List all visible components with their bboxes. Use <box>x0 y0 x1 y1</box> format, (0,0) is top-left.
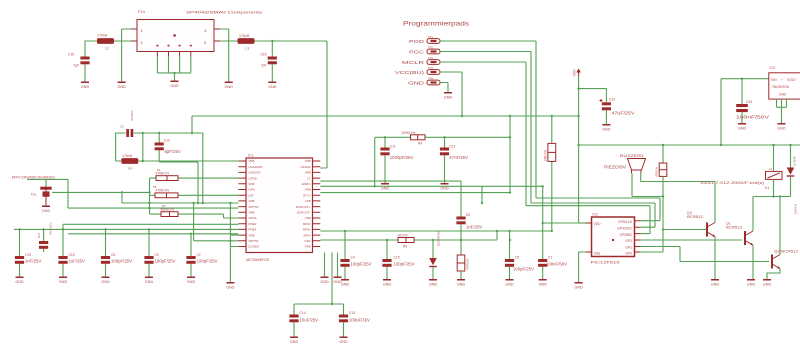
wire R8 to gnd <box>460 271 462 279</box>
svg-text:C5: C5 <box>515 256 519 260</box>
svg-text:GP4/OSC: GP4/OSC <box>617 227 632 231</box>
svg-text:+: + <box>781 78 783 82</box>
svg-text:LL4148: LL4148 <box>793 156 797 166</box>
svg-text:100pF/25V: 100pF/25V <box>197 259 218 264</box>
wire C11 tap <box>384 137 386 147</box>
svg-text:C14: C14 <box>300 311 306 315</box>
wire Q1 collector <box>752 197 754 231</box>
wire MCLR to GP3 <box>526 206 650 234</box>
capacitor C4 <box>344 231 346 259</box>
svg-text:DCROUT+: DCROUT+ <box>296 205 311 209</box>
ground (C5) <box>505 279 514 287</box>
svg-text:LIP-: LIP- <box>249 193 255 197</box>
svg-text:PGD: PGD <box>409 39 425 45</box>
capacitor C34 <box>736 104 748 107</box>
svg-text:560R/1%: 560R/1% <box>161 208 175 212</box>
svg-text:C16: C16 <box>260 53 266 57</box>
svg-text:LNAANDK: LNAANDK <box>249 165 263 169</box>
svg-text:BCR513: BCR513 <box>726 226 742 230</box>
wire antenna top <box>27 179 68 208</box>
wire C22 to gnd <box>605 110 607 124</box>
wire D5 to gnd <box>432 267 434 279</box>
svg-text:C10: C10 <box>164 139 170 143</box>
wire Q2 emitter to gnd <box>767 269 780 279</box>
wire left bus y233.8 <box>68 233 238 235</box>
svg-text:C18: C18 <box>69 253 75 257</box>
ground (C2) <box>187 277 196 285</box>
svg-text:2IP3A: 2IP3A <box>249 216 257 220</box>
wire D5 tap <box>432 240 434 258</box>
wire VSS to gnd <box>579 252 586 282</box>
wire branch x542.7 down to C1 and VDD line <box>543 186 579 259</box>
wire C22 branch <box>579 89 607 102</box>
svg-text:R9: R9 <box>403 245 407 249</box>
svg-text:C8: C8 <box>111 253 115 257</box>
capacitor C17 <box>43 229 45 241</box>
svg-text:LR8: LR8 <box>305 199 311 203</box>
capacitor C14 <box>289 315 298 323</box>
svg-text:VDD: VDD <box>594 222 602 226</box>
wire vertical x122 <box>121 192 123 203</box>
ground (pads) <box>444 92 453 100</box>
ground (R8) <box>457 279 466 287</box>
ground (connector) <box>42 206 51 214</box>
resistor R12 10K vertical <box>548 143 556 161</box>
resistor R11 47R vertical <box>659 163 667 176</box>
wire relay coil bottom <box>773 179 775 196</box>
svg-text:L4: L4 <box>128 167 132 171</box>
inductor L3 <box>238 38 255 44</box>
ground (IC2) <box>574 282 583 290</box>
wire RF drop x193.6 <box>194 203 239 241</box>
ground (C8) <box>101 277 110 285</box>
svg-text:100uF/16V: 100uF/16V <box>349 318 370 323</box>
ground (Q4) <box>711 279 720 287</box>
svg-text:100nF/50V: 100nF/50V <box>736 114 769 119</box>
svg-text:175nH: 175nH <box>97 34 108 38</box>
svg-text:GND: GND <box>779 93 787 97</box>
svg-text:C12: C12 <box>449 145 455 149</box>
wire IC1 y192.6 <box>320 192 510 194</box>
IC1 left pin stubs <box>238 161 246 247</box>
svg-text:PIC12F519: PIC12F519 <box>591 260 621 265</box>
wire RF y203 to IC1 <box>122 202 238 204</box>
svg-text:DCROUT-: DCROUT- <box>297 211 311 215</box>
ground (C22) <box>602 124 611 132</box>
wire VCC vertical down to IC2 VDD <box>578 76 580 223</box>
svg-text:PIEZO/9V: PIEZO/9V <box>604 165 626 170</box>
wire C10 tap <box>158 133 160 143</box>
wire IC3 gnd pins <box>777 99 787 123</box>
IC2 right pin stubs <box>635 221 641 252</box>
ground (IC1 b) <box>333 277 342 285</box>
ground (C19) <box>15 277 24 285</box>
wire reset net y240 <box>320 231 497 240</box>
wire IC1 gnd stub 1 <box>324 253 326 277</box>
wire RF out y192.4 <box>52 191 150 193</box>
capacitor C18 <box>58 256 67 264</box>
resistor R3 470R <box>150 177 239 179</box>
svg-text:7pF: 7pF <box>73 64 79 68</box>
wire buzzer left leg <box>632 173 663 196</box>
wire net y137.3 <box>375 136 510 138</box>
wire x115.6 down to L4 <box>116 133 122 161</box>
svg-text:K1: K1 <box>769 167 773 171</box>
svg-text:100pF/25V: 100pF/25V <box>155 259 176 264</box>
wire C34 tap <box>741 79 743 104</box>
svg-text:470R/1%: 470R/1% <box>156 172 170 176</box>
wire pin5 to L3 <box>220 40 238 42</box>
svg-text:GP1: GP1 <box>625 246 632 250</box>
svg-text:VOUT: VOUT <box>787 78 796 82</box>
resistor R6 560R <box>150 214 239 218</box>
wire relay bottom net <box>753 196 791 198</box>
svg-text:MISO: MISO <box>303 222 311 226</box>
svg-text:100pF/25V: 100pF/25V <box>111 259 132 264</box>
wire pin2 to L2 <box>113 40 132 42</box>
wire PGD to GP5 <box>536 198 660 221</box>
wire C12 to gnd <box>444 155 446 183</box>
wire GND pad <box>440 83 448 93</box>
wire GP0 to buzzer net <box>641 251 664 253</box>
wire y208.1 to IC1 <box>68 207 238 209</box>
capacitor C11 <box>380 148 389 156</box>
wire D1 top <box>790 145 792 168</box>
IC1 left pin names <box>249 159 263 249</box>
svg-text:PNE2: PNE2 <box>249 222 257 226</box>
wire IC1 to C6 top <box>320 181 461 216</box>
svg-text:C11: C11 <box>390 145 396 149</box>
svg-text:100K/1%: 100K/1% <box>401 131 415 135</box>
ground (C16) <box>268 82 277 90</box>
svg-text:VCC: VCC <box>573 69 577 77</box>
capacitor C3 series <box>126 129 129 137</box>
svg-text:SPH-: SPH- <box>303 233 310 237</box>
svg-text:100nF/50V: 100nF/50V <box>546 262 567 267</box>
capacitor C15b <box>386 240 388 259</box>
wire VCC(BU) <box>440 72 462 115</box>
wire y116.4 <box>192 116 579 133</box>
diode D5 <box>429 258 437 265</box>
svg-text:1uF/25V: 1uF/25V <box>69 259 85 264</box>
wire C11 to gnd <box>384 155 386 183</box>
svg-text:Q2 BCR512: Q2 BCR512 <box>774 250 798 254</box>
svg-text:C4: C4 <box>351 256 355 260</box>
wire C16 tap <box>271 41 273 57</box>
svg-text:2IPTNT: 2IPTNT <box>249 239 260 243</box>
svg-text:C6: C6 <box>466 213 470 217</box>
capacitor C10 <box>155 143 164 151</box>
ground (C1) <box>539 279 548 287</box>
svg-text:L3: L3 <box>245 47 249 51</box>
svg-text:GP3/MC: GP3/MC <box>619 233 632 237</box>
svg-text:10uF/25V: 10uF/25V <box>300 318 319 323</box>
ground (filter pin4) <box>225 82 234 90</box>
capacitor C6 <box>456 217 465 225</box>
capacitor C9 <box>148 229 150 256</box>
ground (IC1 a) <box>320 277 329 285</box>
svg-text:100pF/25V: 100pF/25V <box>351 262 372 267</box>
ground (Q2) <box>763 279 772 287</box>
wire PGC <box>440 52 531 204</box>
ground (C9) <box>145 277 154 285</box>
svg-text:SPH+: SPH+ <box>303 228 311 232</box>
wire IC1 lower left pins to gnd drop <box>230 203 238 282</box>
svg-text:VR8: VR8 <box>305 159 311 163</box>
svg-text:SP4043/SMAV Components: SP4043/SMAV Components <box>186 10 262 15</box>
wire PGD <box>440 41 536 198</box>
wire L4 to IC1 <box>138 160 238 162</box>
svg-text:IC1: IC1 <box>248 154 254 158</box>
svg-text:1nF/25V: 1nF/25V <box>25 259 41 264</box>
svg-text:F1L: F1L <box>31 193 37 197</box>
svg-text:VSS: VSS <box>594 252 601 256</box>
ground (C4) <box>341 279 350 287</box>
capacitor C5 <box>509 231 511 259</box>
wire junction x142.8 <box>142 133 144 161</box>
svg-text:LT: LT <box>307 176 310 180</box>
svg-text:K1: K1 <box>765 186 769 190</box>
wire RF vertical from filter down to IC1 <box>320 41 327 168</box>
svg-text:100pF/25V: 100pF/25V <box>394 262 415 267</box>
wire pin4 to gnd <box>220 29 229 82</box>
svg-text:VR8: VR8 <box>305 171 311 175</box>
wire C6 bottom <box>460 224 462 240</box>
svg-text:1000pF/25V: 1000pF/25V <box>390 155 414 160</box>
ground (IC3) <box>777 123 786 131</box>
svg-text:C2: C2 <box>197 253 201 257</box>
svg-text:VR8: VR8 <box>305 188 311 192</box>
wire net down to IC1 <box>320 137 542 186</box>
wire 47R top <box>662 145 664 163</box>
svg-text:C34: C34 <box>746 100 752 104</box>
wire C15 to gnd <box>84 65 86 82</box>
filter pin stubs <box>131 29 220 57</box>
svg-text:C3: C3 <box>120 125 124 129</box>
wire 47R bottom <box>662 176 664 252</box>
wire +9V vertical <box>720 79 722 145</box>
svg-text:VR8: VR8 <box>249 199 255 203</box>
svg-text:2IPTNT: 2IPTNT <box>249 205 260 209</box>
svg-text:STYL: STYL <box>303 193 311 197</box>
svg-text:47uF/25V: 47uF/25V <box>612 111 635 116</box>
svg-text:1nF/25V: 1nF/25V <box>466 225 482 230</box>
svg-text:7pF: 7pF <box>261 64 267 68</box>
wire branch x482 <box>481 186 483 203</box>
svg-text:GPA: GPA <box>304 239 310 243</box>
ground (IC1 left) <box>226 282 235 290</box>
svg-text:C13: C13 <box>349 311 355 315</box>
ground (filter pin1) <box>117 82 126 90</box>
svg-text:IC2: IC2 <box>593 213 599 217</box>
svg-text:BUZZER1: BUZZER1 <box>620 153 645 158</box>
svg-text:C15: C15 <box>394 256 400 260</box>
svg-text:1K/1%: 1K/1% <box>397 234 407 238</box>
wire VDD from VCC <box>579 222 592 224</box>
capacitor C1 <box>538 259 547 267</box>
svg-text:F13: F13 <box>138 9 146 14</box>
wire right bus y231 <box>320 230 552 232</box>
svg-text:MC33696FCE: MC33696FCE <box>246 257 269 262</box>
capacitor C22 polarized <box>602 102 611 105</box>
capacitor C19 <box>19 229 21 256</box>
wire IC1 to bulk caps <box>331 253 333 305</box>
svg-text:C15: C15 <box>68 53 74 57</box>
VCC symbol <box>578 72 580 76</box>
capacitor C13 <box>339 315 348 323</box>
svg-text:VIN: VIN <box>771 78 777 82</box>
ground (C34) <box>738 123 747 131</box>
svg-text:10K/1%: 10K/1% <box>544 150 548 162</box>
svg-text:MCLR: MCLR <box>402 60 425 66</box>
wire C10 bottom <box>159 150 198 203</box>
inductor L2 <box>97 38 114 44</box>
svg-text:175nH: 175nH <box>122 154 133 158</box>
wire x202.8 down <box>202 133 204 203</box>
svg-text:GP0: GP0 <box>625 252 632 256</box>
svg-text:C22: C22 <box>609 98 615 102</box>
capacitor C16 <box>268 57 277 65</box>
svg-text:BZX84C5V6: BZX84C5V6 <box>437 230 441 246</box>
ground (C15b) <box>383 279 392 287</box>
wire D1 bottom <box>790 177 792 197</box>
wire pin1 to gnd <box>122 29 131 82</box>
capacitor C8 <box>105 229 107 256</box>
svg-text:PGC: PGC <box>409 50 425 56</box>
ground (D5) <box>429 279 438 287</box>
wire C3 series net y133 <box>116 132 203 134</box>
wire VIN horizontal <box>721 78 769 80</box>
svg-text:US8: US8 <box>305 216 311 220</box>
ground (C13) <box>339 337 348 345</box>
wire C18 top to IC1 <box>62 224 64 256</box>
inductor L4 <box>121 158 138 164</box>
svg-text:LNAOUT: LNAOUT <box>249 171 261 175</box>
svg-text:Programmierpads: Programmierpads <box>403 21 469 28</box>
wire C34 to gnd <box>741 112 743 123</box>
wire L2 to C15 <box>85 41 97 58</box>
wire vertical x149.5 <box>149 178 151 214</box>
svg-text:10nF/25V: 10nF/25V <box>49 222 53 235</box>
IC1 right pin stubs <box>313 161 321 247</box>
wire C16 to gnd <box>271 65 273 82</box>
wire y224.3 to IC1 <box>63 223 238 225</box>
wire vertical x551.8 through R12 <box>551 116 553 231</box>
resistor R9 1K <box>398 238 414 243</box>
svg-text:470R/1%: 470R/1% <box>156 189 170 193</box>
svg-text:DCNDA: DCNDA <box>249 245 260 249</box>
wire left bus y229.4 <box>14 228 238 230</box>
wire Q4 base <box>663 229 706 231</box>
wire buzzer right leg to Q4 collector <box>641 173 715 222</box>
svg-text:ENRC: ENRC <box>302 182 311 186</box>
wire GP2 to Q1 base <box>641 239 743 241</box>
svg-text:GP5/CLK: GP5/CLK <box>618 220 633 224</box>
ground (Q1) <box>747 279 756 287</box>
svg-text:LNADA: LNADA <box>300 165 310 169</box>
svg-text:C9: C9 <box>155 253 159 257</box>
svg-text:470R/1%: 470R/1% <box>466 258 470 270</box>
svg-text:BCR512: BCR512 <box>687 215 703 219</box>
wire supply horizontal y116 <box>461 115 463 117</box>
wire Q4 emitter to gnd <box>714 237 716 279</box>
svg-text:C1: C1 <box>548 256 552 260</box>
wire IC1 gnd stub 2 <box>337 253 339 277</box>
svg-text:VR8: VR8 <box>249 233 255 237</box>
resistor R5 470R <box>150 194 239 196</box>
svg-text:IC3: IC3 <box>770 66 776 70</box>
ground (C14) <box>290 337 299 345</box>
ground (C18) <box>59 277 68 285</box>
wire MCLR <box>440 62 526 206</box>
svg-text:GND: GND <box>408 81 425 87</box>
svg-text:LIPA: LIPA <box>249 188 255 192</box>
svg-text:175nH: 175nH <box>239 34 250 38</box>
svg-text:100pF/25V: 100pF/25V <box>513 267 534 272</box>
svg-text:VR8: VR8 <box>305 245 311 249</box>
svg-text:10R/1%: 10R/1% <box>794 204 798 214</box>
ground (C11) <box>381 183 390 191</box>
wire C12 tap <box>444 137 446 147</box>
svg-text:VCC(BU): VCC(BU) <box>395 70 425 76</box>
svg-text:VR8: VR8 <box>249 159 255 163</box>
svg-text:C19: C19 <box>25 253 31 257</box>
svg-text:47R/1%: 47R/1% <box>655 167 659 177</box>
IC1 right pin names <box>296 159 311 249</box>
IC2 left pin stubs <box>586 223 592 252</box>
svg-text:VR8: VR8 <box>249 211 255 215</box>
svg-text:6pF/25V: 6pF/25V <box>165 149 181 154</box>
svg-text:PNE3: PNE3 <box>249 228 257 232</box>
wire vertical x510 <box>509 116 511 193</box>
ground (filter bottom) <box>170 81 179 89</box>
svg-text:C17: C17 <box>37 232 41 238</box>
wire L3 right to vertical <box>255 40 328 42</box>
svg-text:LIP3D: LIP3D <box>249 176 258 180</box>
svg-text:L2: L2 <box>105 47 109 51</box>
svg-text:3n3/25V: 3n3/25V <box>130 110 134 121</box>
svg-text:47nF/25V: 47nF/25V <box>449 155 468 160</box>
wire supply rail y145 <box>579 144 800 146</box>
svg-text:VR8: VR8 <box>249 182 255 186</box>
wire Q2 collector <box>779 197 781 255</box>
resistor R8 vertical <box>460 240 462 255</box>
capacitor C15 <box>80 57 89 65</box>
svg-text:R4: R4 <box>418 142 422 146</box>
filter F13 body <box>137 20 214 52</box>
wire Q1 emitter to gnd <box>752 245 754 279</box>
wire connector to gnd <box>45 197 47 206</box>
resistor R4 100K <box>411 135 426 140</box>
capacitor C2 <box>190 234 192 256</box>
filter bottom pins to gnd bus <box>157 57 190 81</box>
diode D1 <box>787 168 795 175</box>
ground (C12) <box>440 183 449 191</box>
wire relay coil top <box>773 145 775 171</box>
wire bulk cap bus <box>294 304 344 315</box>
svg-text:78L05/SO8: 78L05/SO8 <box>772 85 789 89</box>
capacitor C12 <box>440 148 449 156</box>
svg-text:GP2: GP2 <box>625 239 632 243</box>
ground (C15) <box>81 82 90 90</box>
wire GP1 to Q2 base <box>641 247 770 262</box>
wire PGC to GP4 <box>531 203 655 227</box>
